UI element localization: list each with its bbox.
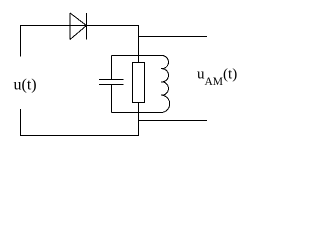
wire: tank top node line — [112, 55, 162, 57]
wire: tank bottom node line — [112, 112, 162, 114]
diode D1 — [70, 13, 87, 40]
wire: main vertical from diode corner to resistor top — [138, 26, 140, 63]
wire: bottom input wire — [20, 135, 139, 137]
capacitor C1 — [99, 56, 124, 113]
resistor R1 — [133, 63, 145, 103]
wire: bottom output wire — [139, 120, 208, 122]
wire: left input terminal upper stub — [20, 25, 22, 57]
wire: main vertical from resistor bottom to bottom wire — [138, 103, 140, 136]
wire: left input terminal lower stub — [20, 109, 22, 136]
inductor L1 — [161, 55, 170, 112]
wire: top output wire — [139, 36, 208, 38]
wire: top input wire — [20, 25, 139, 27]
svg-text:u(t): u(t) — [14, 77, 37, 94]
